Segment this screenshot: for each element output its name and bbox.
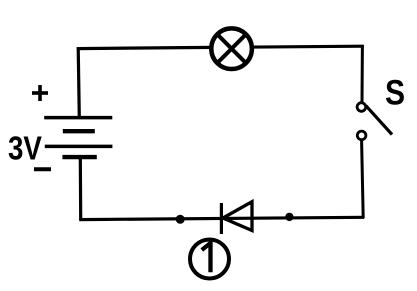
battery 3V — [44, 118, 112, 158]
diode triangle — [223, 202, 252, 231]
wire top-left segment — [77, 47, 213, 48]
label minus — [34, 167, 51, 171]
switch S — [357, 103, 392, 140]
switch lever — [366, 106, 392, 135]
wire right rail upper — [361, 45, 364, 103]
svg-text:3V: 3V — [8, 130, 43, 167]
node dot right — [285, 213, 293, 221]
label plus — [32, 85, 48, 101]
wire top-right segment — [251, 45, 364, 49]
wire left rail upper — [78, 47, 79, 118]
diode D1 — [221, 202, 252, 234]
wire right rail lower — [362, 141, 364, 218]
battery plate short upper — [63, 129, 95, 133]
svg-text:S: S — [385, 72, 405, 112]
wire bottom segment — [79, 217, 364, 219]
battery plate long lower — [45, 145, 113, 149]
diode cathode bar — [220, 203, 223, 234]
lamp L1 — [211, 28, 252, 69]
switch contact top — [357, 103, 366, 112]
switch contact bottom — [357, 131, 366, 140]
wire left rail lower — [79, 157, 83, 220]
battery plate short bottom — [62, 155, 96, 159]
battery plate long top — [44, 116, 112, 120]
node dot left — [176, 215, 185, 224]
label circled 1 — [190, 240, 229, 279]
